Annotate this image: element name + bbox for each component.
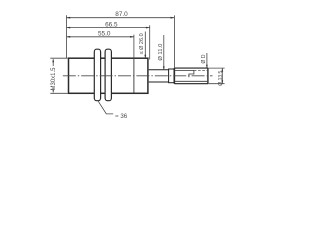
svg-text:Ø 13.5: Ø 13.5 [218,70,224,85]
svg-text:87.0: 87.0 [115,11,128,18]
svg-text:Ø D: Ø D [201,54,207,63]
svg-text:M30x1.5: M30x1.5 [51,67,57,91]
svg-text:≤ Ø 26.0: ≤ Ø 26.0 [139,33,145,54]
svg-text:66.5: 66.5 [105,21,118,28]
svg-text:Ø 11.0: Ø 11.0 [158,44,164,61]
svg-text:55.0: 55.0 [98,31,111,38]
svg-text:≈ 36: ≈ 36 [115,113,127,120]
